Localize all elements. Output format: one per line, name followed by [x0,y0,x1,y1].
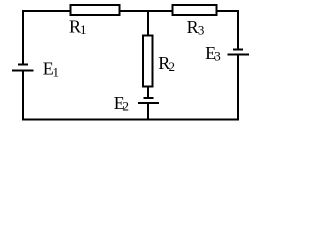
wire right upper [237,10,239,49]
label E2 [114,93,129,114]
svg-text:2: 2 [123,99,130,114]
battery E1 [12,65,33,71]
wire right lower [237,55,239,121]
svg-text:2: 2 [169,59,176,74]
wire middle branch upper [147,10,149,36]
label R3 [187,17,205,38]
resistor R1 [71,5,120,15]
label E1 [43,59,59,80]
wire left lower [22,70,24,120]
wire bottom [22,119,239,121]
wire top-middle segment [120,10,173,12]
battery E2 [138,98,159,103]
wire middle branch lower [147,87,149,98]
svg-text:1: 1 [80,22,87,37]
label R2 [158,53,175,74]
wire middle branch bottom [147,103,149,120]
wire top-left segment [22,10,71,12]
wire top-right segment [217,10,240,12]
wire left upper [22,10,24,64]
svg-text:R: R [187,17,199,37]
svg-text:3: 3 [198,23,205,38]
label R1 [69,17,87,38]
label E3 [205,43,221,64]
svg-text:1: 1 [53,64,60,79]
battery E3 [228,50,249,55]
resistor R3 [173,5,217,15]
resistor R2 [143,36,153,87]
svg-text:3: 3 [214,49,221,64]
